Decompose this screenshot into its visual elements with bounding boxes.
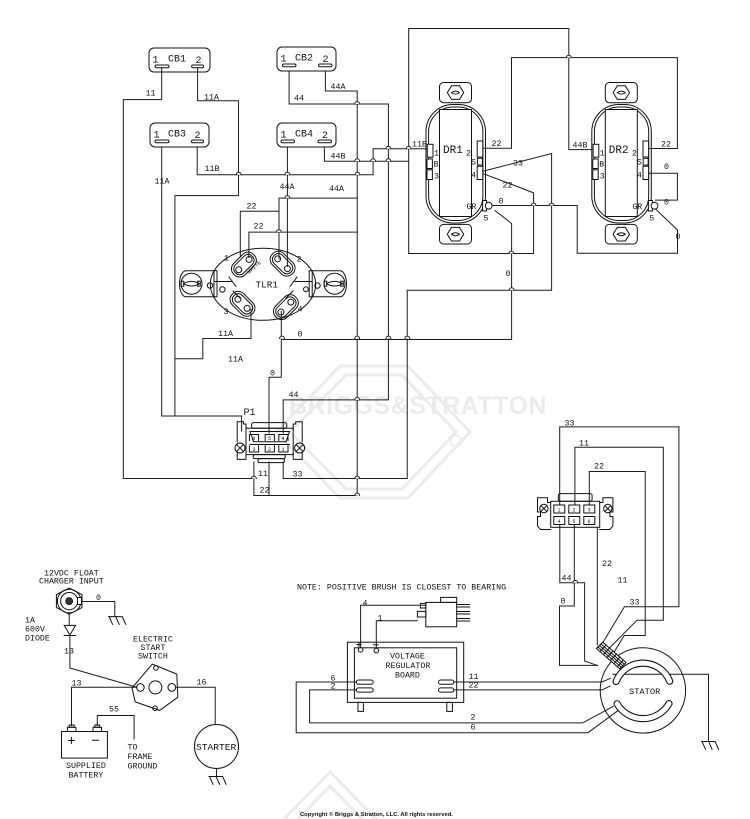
wire 22 tlr1 <box>240 198 357 259</box>
svg-text:0: 0 <box>96 594 101 603</box>
svg-text:4: 4 <box>471 172 476 181</box>
wire stator ground <box>613 674 709 741</box>
wire vrb 4 <box>361 605 426 647</box>
svg-text:44B: 44B <box>331 153 346 162</box>
svg-text:GR: GR <box>467 203 477 212</box>
svg-text:3: 3 <box>588 508 591 514</box>
TLR1 slot 3 <box>227 288 258 319</box>
duplex receptacle DR1 <box>426 83 492 245</box>
svg-text:0: 0 <box>676 233 681 242</box>
J1 left bracket <box>538 498 551 530</box>
svg-text:22: 22 <box>661 141 671 150</box>
ground charger <box>109 617 126 625</box>
svg-text:44: 44 <box>289 391 299 400</box>
svg-text:GR: GR <box>632 203 642 212</box>
ground stator <box>702 742 719 750</box>
svg-text:DIODE: DIODE <box>25 635 50 644</box>
J1 top flange <box>558 494 592 502</box>
J1 pin 4 <box>554 517 565 525</box>
P1 left screw <box>235 443 245 453</box>
svg-text:BATTERY: BATTERY <box>69 772 104 781</box>
svg-text:22: 22 <box>247 203 257 212</box>
wire vrb 1 <box>376 621 417 648</box>
svg-text:13: 13 <box>64 648 74 657</box>
svg-text:SWITCH: SWITCH <box>138 653 168 662</box>
svg-text:B: B <box>434 161 439 170</box>
svg-text:CHARGER INPUT: CHARGER INPUT <box>39 578 104 587</box>
svg-text:1: 1 <box>282 447 285 453</box>
wire 22 p1 <box>254 462 357 496</box>
svg-text:BOARD: BOARD <box>395 672 420 681</box>
J1 pin 3 <box>584 505 595 513</box>
charger jack <box>56 588 82 614</box>
P1 pin 3 <box>249 446 258 452</box>
svg-text:1A: 1A <box>25 617 35 626</box>
DR1 terminal 4 <box>477 166 483 179</box>
svg-text:4: 4 <box>558 519 561 525</box>
TLR1 face contours <box>214 277 312 298</box>
P1 top flange <box>252 423 287 429</box>
DR2 terminal 4 <box>643 166 649 179</box>
svg-text:5: 5 <box>573 519 576 525</box>
svg-text:16: 16 <box>197 679 207 688</box>
DR2 bottom tab <box>605 224 637 244</box>
svg-text:0: 0 <box>664 199 669 208</box>
svg-text:1: 1 <box>224 255 229 264</box>
DR1 terminal 3 <box>427 170 432 180</box>
electric start switch <box>132 664 178 710</box>
svg-text:22: 22 <box>254 223 264 232</box>
wire 44A trunk <box>287 71 357 496</box>
wire 44B <box>324 29 593 254</box>
svg-text:CB3: CB3 <box>168 130 186 141</box>
svg-text:DR2: DR2 <box>609 145 629 157</box>
svg-text:Copyright © Briggs & Stratton,: Copyright © Briggs & Stratton, LLC. All … <box>300 811 453 818</box>
wire vrb 11 stator <box>454 679 610 683</box>
svg-text:CB4: CB4 <box>295 130 313 141</box>
connector P1 <box>235 408 305 463</box>
J1 left screw <box>540 504 548 512</box>
svg-text:44A: 44A <box>280 183 295 192</box>
svg-text:TO: TO <box>128 744 138 753</box>
DR2 terminal 3 <box>593 170 598 180</box>
svg-text:NOTE: POSITIVE BRUSH IS CLOSES: NOTE: POSITIVE BRUSH IS CLOSEST TO BEARI… <box>297 584 506 593</box>
svg-text:11: 11 <box>579 440 589 449</box>
svg-text:11: 11 <box>618 577 628 586</box>
svg-text:11B: 11B <box>205 165 220 174</box>
wire 0 j-conn <box>560 524 598 665</box>
svg-text:2: 2 <box>471 714 476 723</box>
wire hop bumps <box>236 55 577 583</box>
P1 pin 2 <box>265 446 274 452</box>
svg-text:11: 11 <box>258 470 268 479</box>
svg-text:3: 3 <box>253 447 256 453</box>
svg-text:22: 22 <box>602 560 612 569</box>
svg-text:0: 0 <box>499 198 504 207</box>
svg-text:3: 3 <box>224 308 229 317</box>
wire 11B <box>197 147 427 175</box>
svg-text:22: 22 <box>260 487 270 496</box>
watermark partial bottom <box>284 772 376 819</box>
svg-text:P1: P1 <box>244 408 256 419</box>
svg-text:1: 1 <box>600 150 605 159</box>
svg-text:6: 6 <box>471 724 476 733</box>
svg-text:CB1: CB1 <box>168 55 186 66</box>
wire 0 dr2 loop <box>649 173 677 200</box>
wire 33 dr1 <box>283 154 551 479</box>
svg-text:1: 1 <box>153 56 159 67</box>
svg-text:S: S <box>637 159 642 168</box>
svg-text:33: 33 <box>513 160 523 169</box>
svg-text:2: 2 <box>323 55 329 66</box>
svg-text:11B: 11B <box>412 141 427 150</box>
svg-text:GROUND: GROUND <box>128 763 158 772</box>
P1 right ear <box>293 422 302 460</box>
wire 11 <box>123 68 254 496</box>
DR2 body <box>592 105 652 224</box>
P1 pin 1 <box>279 446 288 452</box>
svg-text:1: 1 <box>434 150 439 159</box>
DR1 bottom tab <box>440 224 472 244</box>
svg-text:22: 22 <box>469 682 479 691</box>
brush assembly <box>597 642 627 669</box>
circuit breaker CB1 <box>149 48 210 72</box>
svg-text:STARTER: STARTER <box>196 742 237 753</box>
circuit breaker CB2 <box>277 47 336 71</box>
circuit breaker CB3 <box>150 123 209 147</box>
svg-text:FRAME: FRAME <box>128 753 153 762</box>
svg-text:22: 22 <box>492 140 502 149</box>
wire 44 <box>283 71 388 433</box>
DR2 terminal B <box>593 159 598 169</box>
svg-text:1: 1 <box>281 55 287 66</box>
diode D1 <box>64 625 75 635</box>
DR1 body <box>426 105 486 224</box>
wire charger diode <box>69 614 137 687</box>
J1 pin 1 <box>554 505 565 513</box>
svg-text:2: 2 <box>196 56 202 67</box>
DR1 terminal 1 <box>427 144 433 157</box>
twistlock receptacle TLR1 <box>180 248 347 323</box>
svg-text:44: 44 <box>294 95 304 104</box>
ground starter <box>209 777 226 785</box>
DR1 top tab <box>440 83 472 103</box>
wire 44 j-conn <box>560 524 598 666</box>
svg-text:STATOR: STATOR <box>629 687 660 697</box>
TLR1 left mount rail <box>180 271 215 297</box>
wire 11A <box>162 68 251 431</box>
P1 pin 5 <box>265 435 274 441</box>
battery <box>62 725 108 758</box>
wire vrb 22 stator <box>454 686 610 690</box>
DR2 terminal S <box>643 158 648 165</box>
P1 pin 6 <box>249 435 258 441</box>
DR1 terminal 2 <box>477 141 483 157</box>
svg-text:1: 1 <box>281 131 287 142</box>
TLR1 right screw <box>324 273 345 294</box>
svg-text:CB2: CB2 <box>295 54 313 65</box>
wire starter ground <box>216 769 218 777</box>
P1 bottom tail <box>253 455 285 459</box>
wire j pin6 <box>596 527 598 645</box>
svg-text:4: 4 <box>363 600 368 609</box>
svg-text:44A: 44A <box>329 185 344 194</box>
VRB - terminal <box>374 648 379 653</box>
VRB right slots <box>439 680 454 684</box>
DR1 terminal B <box>427 159 432 169</box>
VRB left slots <box>356 680 373 684</box>
svg-text:2: 2 <box>331 683 336 692</box>
svg-text:44B: 44B <box>573 142 588 151</box>
P1 body <box>246 428 293 454</box>
svg-text:2: 2 <box>466 150 471 159</box>
svg-text:44A: 44A <box>331 83 346 92</box>
wire charger 0 <box>82 602 115 616</box>
svg-text:SUPPLIED: SUPPLIED <box>66 762 106 771</box>
wire 11 j-conn <box>575 447 663 651</box>
svg-text:1: 1 <box>154 131 160 142</box>
wire battery 13 <box>72 687 137 725</box>
svg-text:11: 11 <box>146 90 156 99</box>
svg-text:11A: 11A <box>204 94 219 103</box>
svg-text:11A: 11A <box>218 330 233 339</box>
svg-text:2: 2 <box>573 508 576 514</box>
svg-text:2: 2 <box>195 131 201 142</box>
svg-text:4: 4 <box>298 306 303 315</box>
svg-text:REGULATOR: REGULATOR <box>386 662 431 671</box>
svg-text:DR1: DR1 <box>443 145 463 157</box>
wire vrb 2 <box>310 690 613 723</box>
svg-text:0: 0 <box>270 370 275 379</box>
svg-text:22: 22 <box>503 182 513 191</box>
svg-text:4: 4 <box>282 436 285 442</box>
watermark briggs&stratton logo <box>276 366 470 498</box>
TLR1 left screw <box>181 273 202 294</box>
svg-text:13: 13 <box>72 680 82 689</box>
svg-text:0: 0 <box>664 163 669 172</box>
wire 22 dr1 diagonal <box>409 174 534 254</box>
wire 0 net <box>269 206 678 434</box>
engine harness plug <box>417 597 469 626</box>
svg-text:1: 1 <box>378 615 383 624</box>
svg-text:33: 33 <box>293 471 303 480</box>
J1 pin 2 <box>569 505 580 513</box>
svg-text:0: 0 <box>506 270 511 279</box>
svg-text:0: 0 <box>561 598 566 607</box>
J1 pin 6 <box>584 517 595 525</box>
TLR1 slot 4 <box>270 292 301 323</box>
DR2 terminal 2 <box>643 141 649 157</box>
stator <box>600 648 685 733</box>
svg-text:2: 2 <box>268 447 271 453</box>
svg-text:33: 33 <box>565 420 575 429</box>
wire 22 duplex <box>483 58 678 149</box>
svg-text:5: 5 <box>268 436 271 442</box>
svg-text:2: 2 <box>632 150 637 159</box>
wire 55 <box>97 716 134 740</box>
svg-text:4: 4 <box>637 172 642 181</box>
DR2 terminal GR <box>648 201 652 212</box>
svg-text:6: 6 <box>253 436 256 442</box>
voltage regulator board U1 <box>347 642 463 711</box>
svg-text:11A: 11A <box>228 356 243 365</box>
P1 right screw <box>295 443 305 453</box>
svg-text:44: 44 <box>562 575 572 584</box>
wire 22 j-conn <box>589 472 645 657</box>
starter <box>195 725 239 769</box>
svg-text:3: 3 <box>600 173 605 182</box>
DR1 terminal S <box>477 158 482 165</box>
circuit breaker CB4 <box>277 123 336 147</box>
VRB legs <box>358 702 363 711</box>
TLR1 slot 2 <box>267 248 298 279</box>
DR1 terminal GR <box>483 201 487 212</box>
svg-text:TLR1: TLR1 <box>256 280 279 291</box>
TLR1 right mount rail <box>312 271 347 297</box>
DR2 terminal 1 <box>593 144 599 157</box>
J1 pin 5 <box>569 517 580 525</box>
VRB + terminal <box>358 648 363 653</box>
svg-text:5: 5 <box>484 215 489 224</box>
J1 right bracket <box>600 498 613 530</box>
svg-text:1: 1 <box>558 508 561 514</box>
svg-text:3: 3 <box>434 173 439 182</box>
P1 pin 4 <box>279 435 288 441</box>
svg-text:11A: 11A <box>155 178 170 187</box>
svg-text:6: 6 <box>588 519 591 525</box>
duplex receptacle DR2 <box>592 83 658 245</box>
svg-text:2: 2 <box>297 256 302 265</box>
wire 33 j-conn <box>560 427 679 647</box>
wire vrb 6 <box>296 682 617 733</box>
svg-text:5: 5 <box>649 215 654 224</box>
svg-text:VOLTAGE: VOLTAGE <box>390 653 425 662</box>
svg-text:BRIGGS&STRATTON: BRIGGS&STRATTON <box>289 392 547 420</box>
svg-text:600V: 600V <box>25 626 45 635</box>
svg-text:2: 2 <box>322 131 328 142</box>
TLR1 slot 1 <box>228 249 259 280</box>
svg-text:33: 33 <box>630 599 640 608</box>
svg-text:22: 22 <box>594 463 604 472</box>
P1 left ear <box>237 422 246 460</box>
J1 right screw <box>604 504 612 512</box>
J1 body <box>551 501 600 527</box>
wire 16 starter <box>176 687 216 724</box>
connector J1 <box>538 494 613 530</box>
svg-text:55: 55 <box>109 706 119 715</box>
svg-text:B: B <box>599 161 604 170</box>
svg-text:S: S <box>471 159 476 168</box>
svg-text:0: 0 <box>298 331 303 340</box>
DR2 top tab <box>605 83 637 103</box>
